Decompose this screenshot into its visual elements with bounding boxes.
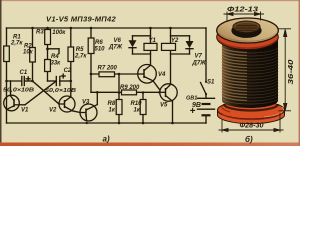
svg-text:R5: R5 bbox=[76, 47, 84, 53]
svg-text:S1: S1 bbox=[207, 80, 215, 86]
svg-text:36-40: 36-40 bbox=[288, 59, 295, 84]
svg-text:R6: R6 bbox=[95, 40, 103, 46]
svg-text:V4: V4 bbox=[158, 72, 166, 78]
svg-text:R9 200: R9 200 bbox=[120, 85, 140, 91]
svg-text:GB1: GB1 bbox=[186, 96, 197, 102]
svg-text:Д7Ж: Д7Ж bbox=[108, 44, 123, 50]
svg-text:50,0×10В: 50,0×10В bbox=[45, 88, 76, 94]
svg-text:+: + bbox=[190, 106, 196, 117]
svg-text:R2: R2 bbox=[24, 43, 32, 49]
svg-text:R10: R10 bbox=[131, 101, 143, 107]
svg-text:Ф12-13: Ф12-13 bbox=[227, 7, 258, 14]
svg-text:V5: V5 bbox=[160, 103, 168, 109]
svg-text:33к: 33к bbox=[51, 61, 62, 67]
svg-text:V3: V3 bbox=[82, 100, 90, 106]
svg-text:Y1: Y1 bbox=[149, 38, 157, 44]
svg-text:R7 200: R7 200 bbox=[98, 65, 118, 71]
svg-text:R3: R3 bbox=[36, 30, 44, 36]
svg-text:510: 510 bbox=[95, 47, 106, 53]
svg-text:а): а) bbox=[103, 135, 110, 144]
svg-text:R4: R4 bbox=[51, 54, 59, 60]
svg-text:Д7Ж: Д7Ж bbox=[192, 61, 207, 67]
svg-text:2,7к: 2,7к bbox=[74, 54, 87, 60]
svg-text:C1: C1 bbox=[20, 70, 28, 76]
svg-text:2,7к: 2,7к bbox=[10, 40, 23, 46]
svg-text:Y2: Y2 bbox=[171, 38, 179, 44]
svg-text:V6: V6 bbox=[114, 38, 122, 44]
svg-text:V7: V7 bbox=[195, 54, 203, 60]
svg-text:1к: 1к bbox=[134, 108, 141, 114]
svg-text:100к: 100к bbox=[52, 30, 66, 36]
svg-text:V2: V2 bbox=[49, 108, 57, 114]
svg-text:Ф28-30: Ф28-30 bbox=[240, 121, 265, 130]
svg-text:C2: C2 bbox=[64, 68, 72, 74]
svg-text:б): б) bbox=[245, 135, 253, 144]
svg-text:1к: 1к bbox=[109, 108, 116, 114]
svg-text:R8: R8 bbox=[108, 101, 116, 107]
svg-text:V1: V1 bbox=[21, 108, 29, 114]
svg-text:V1-V5 МП39-МП42: V1-V5 МП39-МП42 bbox=[46, 15, 116, 24]
svg-text:50,0×10В: 50,0×10В bbox=[3, 88, 34, 94]
svg-text:10к: 10к bbox=[23, 50, 34, 56]
